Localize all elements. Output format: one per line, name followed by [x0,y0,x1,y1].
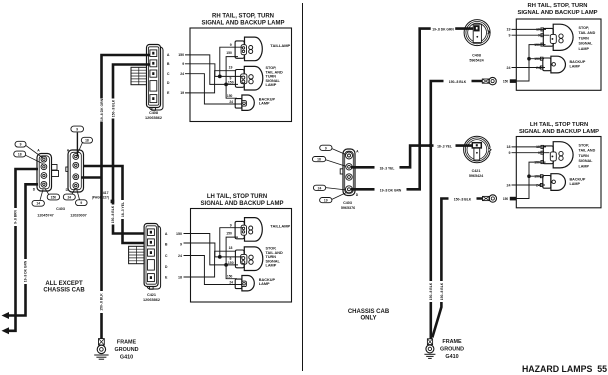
svg-text:9: 9 [509,151,511,155]
off-page arrow 2 [2,312,10,319]
C403 left pins [41,156,47,187]
taillamp bulb (RH left box) [235,37,262,61]
wire circuit 18 (LH left box) [184,251,237,277]
circuit oval 24 (below right conn) [63,194,75,200]
svg-text:24: 24 [180,72,184,76]
svg-text:TAILLAMP: TAILLAMP [270,43,290,48]
case ground stud (LH right box) [510,197,516,201]
svg-text:B: B [165,242,168,246]
C403 name labels [37,207,86,218]
wire circuit 150 (LH left box) [184,234,239,279]
svg-text:12065862: 12065862 [145,116,162,120]
svg-text:19: 19 [507,28,511,32]
svg-text:150: 150 [226,51,232,55]
wire label 19-.8 DK GRN (top) [431,26,456,32]
svg-text:9: 9 [180,242,182,246]
stub wire into pin A [76,132,78,156]
stop/tail/turn bulb (LH right box) [541,142,573,168]
RH lamp box (left page) [190,28,292,122]
wire label 150-.8 BLK (lower) [99,291,104,313]
svg-text:A: A [356,149,359,153]
C408 circuit numbers [178,53,184,95]
round connector C421 (chassis) [464,136,492,163]
svg-text:GROUND: GROUND [440,347,464,353]
svg-text:SIGNAL AND BACKUP LAMP: SIGNAL AND BACKUP LAMP [201,201,284,207]
svg-text:9: 9 [182,62,184,66]
wire label 19-.8 DK GRN [23,259,28,284]
C408 name label [145,111,162,120]
wire circuit 9 (LH left box) [184,228,244,257]
svg-text:LAMP: LAMP [570,65,581,69]
svg-text:5965376: 5965376 [341,206,355,210]
G410 text (right) [440,339,464,360]
off-page arrow 1 [2,327,10,334]
svg-text:GROUND: GROUND [115,347,139,353]
svg-text:5965424: 5965424 [469,59,484,63]
svg-text:14: 14 [36,202,40,206]
ring terminal 150 (RH) [482,77,496,84]
leader [25,155,42,163]
svg-text:12020007: 12020007 [70,214,86,218]
svg-text:18-.3 YEL: 18-.3 YEL [121,202,125,217]
svg-text:9: 9 [20,143,22,147]
svg-text:150-.8 BLK: 150-.8 BLK [440,282,444,300]
circuit oval 150 (below left conn) [47,194,59,200]
leader [26,145,43,158]
svg-text:LAMP: LAMP [266,264,277,268]
svg-text:18-.3 YEL: 18-.3 YEL [380,166,395,170]
svg-text:150: 150 [226,231,232,235]
ground bus 150 (LH right box) [516,162,546,198]
svg-text:150: 150 [228,80,234,84]
svg-text:LAMP: LAMP [266,83,277,87]
svg-text:150-.8 BLK: 150-.8 BLK [111,205,115,223]
svg-text:C403: C403 [56,207,65,211]
svg-text:150: 150 [503,197,509,201]
svg-text:150: 150 [503,80,509,84]
C403 chassis circuit tags [320,145,332,150]
frame ground G410 (left) [94,339,108,360]
wire label 18-.3 YEL (into round connector) [434,143,456,149]
svg-text:19-.8 DK GRN: 19-.8 DK GRN [100,98,104,121]
CHASSIS CAB ONLY note [348,309,390,322]
svg-text:9: 9 [80,201,82,205]
svg-text:TURN: TURN [579,154,590,158]
svg-text:C421: C421 [472,169,481,173]
svg-text:RH TAIL, STOP, TURN: RH TAIL, STOP, TURN [212,14,274,20]
C421 name label [143,293,160,302]
svg-text:FRAME: FRAME [442,339,462,345]
stop/tail/turn bulb (RH right box) [541,24,573,50]
C408 pin letters [167,53,170,95]
junction dot 9 [218,75,222,79]
svg-text:STOP,: STOP, [579,26,590,30]
circuit oval 9 (above C403 right) [71,126,84,132]
wire label 18-.3 YEL [120,200,125,219]
connector C403 right half [68,150,84,192]
svg-text:150-.8 BLK: 150-.8 BLK [429,282,433,300]
wire label 150-.8 BLK [111,99,116,119]
wire label 9-.8 BRN [13,208,18,226]
wire 150 BLK to ring terminal (LH) [432,199,482,338]
wire circuit 9 (RH left box) [185,47,243,76]
svg-text:LAMP: LAMP [259,102,270,106]
svg-text:TAIL AND: TAIL AND [579,149,596,153]
svg-text:18: 18 [18,152,22,156]
leader [78,142,83,153]
svg-text:18-.3 YEL: 18-.3 YEL [437,145,452,149]
svg-text:150-.8 BLK: 150-.8 BLK [449,80,467,84]
svg-text:C408: C408 [149,111,158,115]
stop/tail/turn bulb (LH left box) [235,247,262,271]
wire circuit 150 (RH left box) [185,55,238,98]
splice S417 [111,200,115,204]
svg-text:18: 18 [178,275,182,279]
rotated label 150-.8 BLK (RH drop) [428,281,433,302]
svg-text:D: D [167,81,170,85]
svg-text:19: 19 [229,66,233,70]
svg-text:9: 9 [230,223,232,227]
svg-text:SIGNAL AND BACKUP LAMP: SIGNAL AND BACKUP LAMP [519,129,599,135]
svg-text:9: 9 [76,127,78,131]
circuit oval 9 (below right conn) [76,200,88,206]
C421 circuit numbers [176,232,182,279]
wire 19 DK GRN to round connector C408 [351,29,474,190]
svg-text:150: 150 [178,53,184,57]
connector C408 [131,45,163,111]
backup bulb (LH right box) [540,174,565,191]
C421 pin letters [165,232,168,279]
svg-text:150-.8 BLK: 150-.8 BLK [112,99,116,117]
G410 text (left) [115,340,139,361]
RH right box title [517,3,597,16]
svg-text:TAIL AND: TAIL AND [579,31,596,35]
circuit oval 18 (left) [14,151,26,157]
LH lamp box (left page) [191,209,292,303]
wire circuit 24 (LH left box) [184,256,243,285]
svg-text:18: 18 [507,145,511,149]
svg-text:150-.8 BLK: 150-.8 BLK [100,293,104,311]
svg-text:150: 150 [176,232,182,236]
wire circuit 24 (RH left box) [185,74,242,104]
svg-text:A: A [165,232,168,236]
svg-text:LAMP: LAMP [259,282,270,286]
svg-text:CHASSIS CAB: CHASSIS CAB [348,309,390,315]
wire label 19-.8 DK GRN [99,99,104,122]
wire 150 BLK to ring terminal (RH) [431,81,483,339]
svg-text:24: 24 [67,195,71,199]
ground bus 150 (RH right box) [516,45,546,81]
svg-text:LAMP: LAMP [579,47,590,51]
svg-text:D: D [165,265,168,269]
keyway notch on C408 rings [487,30,491,34]
wire to off-page arrow 2 [9,184,39,315]
junction blob 18YEL x 150BLK crossing [429,144,433,148]
svg-text:FRAME: FRAME [117,340,137,346]
wire C403 pin C to ground run [81,176,102,179]
svg-text:24: 24 [229,100,233,104]
svg-text:C421: C421 [147,293,156,297]
svg-text:19: 19 [180,91,184,95]
svg-text:STOP,: STOP, [579,144,590,148]
case ground stud (RH right box) [510,79,516,83]
svg-text:G410: G410 [445,354,458,360]
svg-text:19-.8 DK GRN: 19-.8 DK GRN [432,28,454,32]
svg-text:12045747: 12045747 [37,214,53,218]
svg-text:BACKUP: BACKUP [570,178,586,182]
svg-text:B: B [167,62,170,66]
svg-text:TAILLAMP: TAILLAMP [270,223,290,228]
svg-text:C403: C403 [343,201,352,205]
svg-text:SIGNAL: SIGNAL [579,159,594,163]
svg-text:E: E [167,91,170,95]
svg-text:A: A [167,53,170,57]
circuit oval 9 (top left) [15,141,26,147]
wire label 150-.8 BLK [444,78,472,84]
svg-text:C408: C408 [472,54,481,58]
svg-text:BACKUP: BACKUP [570,60,586,64]
frame ground G410 (right) [424,339,435,359]
svg-text:150: 150 [227,94,233,98]
svg-text:(PAGE 227): (PAGE 227) [92,195,109,199]
ring terminal 150 (LH) [483,195,497,202]
wire circuit 19 (RH left box) [185,71,236,93]
svg-text:150-.8 BLK: 150-.8 BLK [454,197,472,201]
wire 18 YEL path [351,146,473,168]
RH lamp box title [202,14,285,27]
wire to off-page arrow 1 [9,169,39,331]
wire label 19-.8 DK GRN (bottom) [375,187,407,193]
LH lamp box title [201,194,284,207]
svg-text:LAMP: LAMP [579,164,590,168]
wire label 150-.8 BLK (near C421) [110,205,115,225]
svg-text:CHASSIS CAB: CHASSIS CAB [43,288,85,294]
svg-text:HAZARD LAMPS 55: HAZARD LAMPS 55 [522,364,607,374]
svg-text:A: A [37,149,40,153]
C403 left latch [52,165,58,171]
wire C403 pin B to 18 YEL drop [84,166,146,243]
svg-text:LH TAIL, STOP TURN: LH TAIL, STOP TURN [207,194,267,200]
connector C403 left half [37,154,52,192]
C403 right pins [73,154,79,189]
svg-text:9: 9 [230,43,232,47]
svg-text:18: 18 [317,158,321,162]
svg-text:SIGNAL: SIGNAL [579,42,594,46]
svg-text:19-.8 DK GRN: 19-.8 DK GRN [380,188,402,192]
svg-text:150: 150 [51,195,57,199]
svg-text:24: 24 [318,186,322,190]
wire 150 BLK from C408-B [113,65,150,234]
backup bulb (LH left box) [235,276,254,291]
svg-text:TURN: TURN [579,36,590,40]
svg-text:9: 9 [509,34,511,38]
round connector C408 (chassis) [464,20,490,46]
svg-text:24: 24 [507,66,511,70]
wire label 18-.3 YEL (horizontal near C403) [375,165,400,171]
backup bulb (RH right box) [540,56,565,73]
rotated label 150-.8 BLK (LH drop) [439,281,444,302]
svg-text:ONLY: ONLY [360,316,376,322]
svg-text:24: 24 [178,254,182,258]
svg-text:19: 19 [324,199,328,203]
svg-text:9-.8 BRN: 9-.8 BRN [14,210,18,224]
ALL EXCEPT CHASSIS CAB note [43,281,85,294]
backup bulb (RH left box) [235,95,254,110]
svg-text:LAMP: LAMP [570,182,581,186]
circuit oval 18 (right of stub) [81,137,92,143]
svg-text:9: 9 [325,146,327,150]
LH lamp box (right page) [516,137,601,208]
svg-text:18: 18 [229,246,233,250]
svg-text:24: 24 [229,280,233,284]
svg-text:G410: G410 [120,354,133,360]
connector C421 [129,224,161,290]
svg-text:D: D [33,188,36,192]
page divider [302,3,304,371]
LH right box title [519,122,599,135]
wire 19 DK GRN from C408-A [102,55,150,339]
svg-text:C: C [165,254,168,258]
svg-text:ALL EXCEPT: ALL EXCEPT [45,281,83,287]
svg-text:LH TAIL, STOP TURN: LH TAIL, STOP TURN [530,122,588,128]
RH lamp box (right page) [516,19,601,90]
connector C403 (chassis) [343,149,355,196]
svg-text:5965424: 5965424 [469,174,484,178]
svg-text:150: 150 [228,261,234,265]
svg-text:SIGNAL AND BACKUP LAMP: SIGNAL AND BACKUP LAMP [517,10,597,16]
junction S dot 150 [224,83,228,87]
svg-text:24: 24 [507,183,511,187]
svg-text:19-.8 DK GRN: 19-.8 DK GRN [24,260,28,282]
svg-text:150: 150 [227,274,233,278]
svg-text:E: E [165,275,168,279]
svg-text:D: D [356,193,359,197]
svg-text:C: C [167,72,170,76]
taillamp bulb (LH left box) [235,218,262,242]
C403 right keyway [66,167,68,171]
svg-text:12065862: 12065862 [143,298,160,302]
svg-text:SIGNAL AND BACKUP LAMP: SIGNAL AND BACKUP LAMP [202,21,285,27]
circuit oval 14 (below left conn) [32,200,44,206]
wire label 150-.8 BLK [449,196,477,202]
svg-text:18: 18 [85,139,89,143]
svg-text:RH TAIL, STOP, TURN: RH TAIL, STOP, TURN [528,3,588,9]
C403 chassis name label [341,201,355,210]
stop/tail/turn bulb (RH left box) [235,66,262,90]
